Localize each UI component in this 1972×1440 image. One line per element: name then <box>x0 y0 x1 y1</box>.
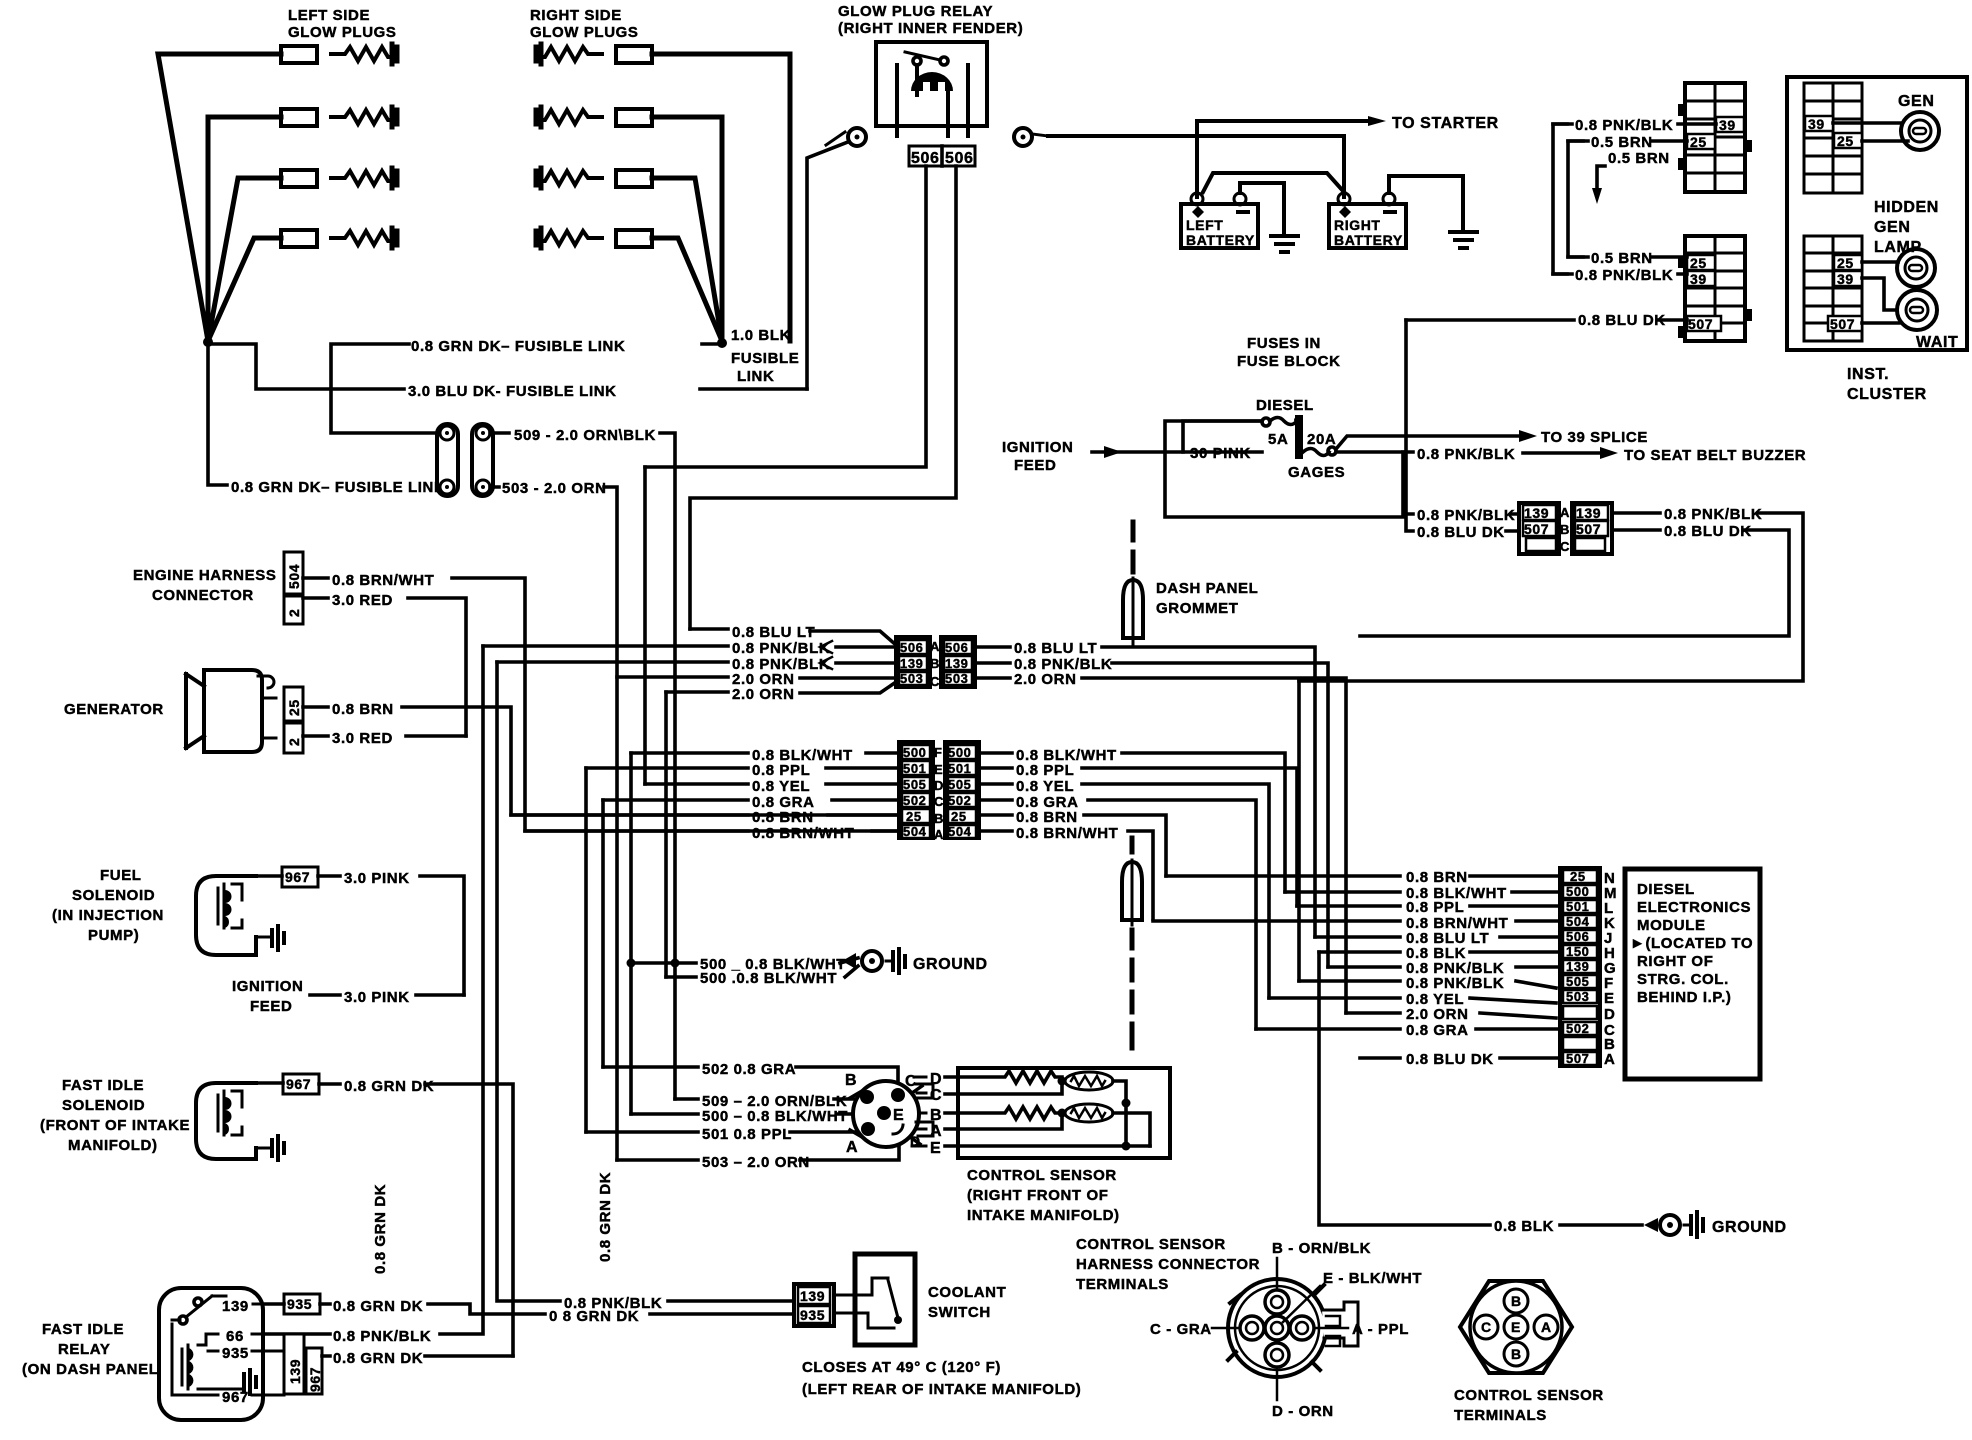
svg-text:BATTERY: BATTERY <box>1186 232 1255 248</box>
svg-text:935: 935 <box>800 1307 825 1323</box>
svg-text:0.8 PPL: 0.8 PPL <box>1406 899 1464 916</box>
svg-text:HIDDEN: HIDDEN <box>1874 199 1939 216</box>
svg-text:506: 506 <box>900 640 924 655</box>
wire battery jumper <box>1203 173 1344 192</box>
wire 0.8 yel right row <box>979 784 1269 998</box>
svg-text:MANIFOLD): MANIFOLD) <box>68 1137 158 1154</box>
svg-text:ENGINE HARNESS: ENGINE HARNESS <box>133 567 276 584</box>
wire 501 0.8 ppl control <box>586 1130 856 1134</box>
svg-text:3.0 RED: 3.0 RED <box>332 592 393 609</box>
svg-text:BEHIND I.P.): BEHIND I.P.) <box>1637 989 1731 1006</box>
svg-text:25: 25 <box>1570 869 1586 884</box>
connector key tabs <box>916 1084 933 1136</box>
wire ignition feed 3.0 pink <box>310 993 464 997</box>
svg-text:FEED: FEED <box>1014 457 1056 474</box>
harness connector key tabs <box>1322 1302 1358 1346</box>
svg-text:FUSE BLOCK: FUSE BLOCK <box>1237 353 1341 370</box>
wire vertical pnk/blk return to F <box>1297 681 1301 981</box>
wire relay right leg down <box>690 166 956 629</box>
ignition feed label <box>1002 439 1073 474</box>
fuse 20A gages <box>1303 447 1336 456</box>
svg-text:B: B <box>934 811 944 826</box>
wire 500 0.8 blk/wht control <box>631 1112 872 1116</box>
svg-text:FUEL: FUEL <box>100 867 142 884</box>
svg-text:CONNECTOR: CONNECTOR <box>152 587 254 604</box>
wire 0.8 yel left row <box>645 782 899 786</box>
svg-text:505: 505 <box>948 777 972 792</box>
wire C row <box>945 1081 1062 1094</box>
connector 139/967 rotated boxes <box>284 1334 322 1394</box>
svg-text:FUSES IN: FUSES IN <box>1247 335 1321 352</box>
svg-text:GEN: GEN <box>1874 219 1910 236</box>
wire 500 blk/wht ground row1 <box>631 958 858 963</box>
svg-text:FAST IDLE: FAST IDLE <box>42 1321 124 1338</box>
svg-text:(ON DASH PANEL): (ON DASH PANEL) <box>22 1361 164 1378</box>
svg-text:66: 66 <box>226 1328 244 1345</box>
glow plug R1 <box>536 44 652 64</box>
svg-text:139: 139 <box>1524 505 1549 521</box>
svg-text:0.8 BRN/WHT: 0.8 BRN/WHT <box>332 572 434 589</box>
ground left battery <box>1271 236 1298 252</box>
wire 0.8 brn/wht engine harness <box>303 578 899 831</box>
svg-text:TERMINALS: TERMINALS <box>1076 1276 1169 1293</box>
svg-text:25: 25 <box>1837 133 1854 149</box>
svg-text:C: C <box>1560 539 1570 554</box>
wire 503 2.0 orn control <box>617 1146 899 1160</box>
fuel solenoid coil <box>218 884 242 928</box>
svg-text:506: 506 <box>945 640 969 655</box>
label 25 / 39 / 507 lower grid <box>1687 255 1721 331</box>
fuel solenoid box <box>196 876 256 955</box>
svg-text:TO 39 SPLICE: TO 39 SPLICE <box>1541 429 1648 446</box>
svg-text:504: 504 <box>1566 914 1590 929</box>
svg-text:E: E <box>1604 990 1615 1007</box>
wire 500 blk/wht ground row2 <box>666 966 858 977</box>
module wire 0.8 brn N <box>1166 874 1563 878</box>
svg-text:A: A <box>930 639 940 654</box>
wire 0.5 brn upper <box>1568 139 1687 143</box>
svg-text:503: 503 <box>1566 989 1590 1004</box>
svg-text:0.8 PNK/BLK: 0.8 PNK/BLK <box>1417 446 1515 463</box>
svg-text:0.8 GRN DK: 0.8 GRN DK <box>344 1078 434 1095</box>
svg-text:WAIT: WAIT <box>1916 334 1958 351</box>
wire L2 <box>208 117 281 341</box>
svg-text:RELAY: RELAY <box>58 1341 110 1358</box>
connector grid top right upper <box>1678 83 1752 192</box>
svg-text:501 0.8 PPL: 501 0.8 PPL <box>702 1126 792 1143</box>
wire 509 2.0 orn/blk control <box>675 1097 856 1101</box>
wires to gen lamp <box>1833 123 1908 141</box>
svg-text:E - BLK/WHT: E - BLK/WHT <box>1323 1270 1422 1287</box>
pin letters around connector <box>845 1072 921 1156</box>
wire to 39 splice <box>1336 436 1519 449</box>
connector 139/507 A B C right half <box>1572 503 1612 554</box>
svg-text:5A: 5A <box>1268 431 1288 448</box>
svg-text:B - ORN/BLK: B - ORN/BLK <box>1272 1240 1371 1257</box>
right battery <box>1329 193 1406 248</box>
svg-text:0.8 BRN/WHT: 0.8 BRN/WHT <box>752 825 854 842</box>
svg-text:PUMP): PUMP) <box>88 927 139 944</box>
wire left battery ground <box>1240 183 1284 234</box>
wire 0.8 pnk/blk coolant <box>497 662 794 1301</box>
svg-text:A: A <box>1604 1051 1615 1068</box>
connector 500F-504A right half <box>945 742 979 838</box>
svg-text:139: 139 <box>900 656 924 671</box>
relay left ring terminal <box>826 128 866 146</box>
svg-text:CONTROL SENSOR: CONTROL SENSOR <box>1076 1236 1226 1253</box>
label B orn/blk <box>1276 1258 1279 1290</box>
svg-text:0.8 YEL: 0.8 YEL <box>1016 778 1074 795</box>
svg-text:E: E <box>1511 1319 1521 1335</box>
wire 0.8 grn dk coolant <box>483 1312 794 1316</box>
svg-text:25: 25 <box>951 809 967 824</box>
svg-text:501: 501 <box>903 761 927 776</box>
wire 0.8 blk/wht right row <box>979 753 1285 892</box>
wires to hidden gen lamp and wait lamp <box>1862 262 1899 323</box>
svg-text:507: 507 <box>1688 316 1713 332</box>
label inst cluster <box>1847 366 1927 403</box>
svg-text:139: 139 <box>800 1288 825 1304</box>
svg-text:0.8 BLK: 0.8 BLK <box>1494 1218 1554 1235</box>
ground mid symbol <box>842 949 905 973</box>
svg-text:(IN INJECTION: (IN INJECTION <box>52 907 164 924</box>
wire pnk/blk branch down to 139A <box>1403 452 1519 514</box>
svg-text:0.8 GRN DK: 0.8 GRN DK <box>597 1172 614 1262</box>
left battery <box>1181 193 1258 248</box>
svg-text:503 - 2.0 ORN: 503 - 2.0 ORN <box>502 480 607 497</box>
svg-text:E: E <box>893 1107 904 1124</box>
wire 0.8 brn right row <box>979 815 1166 876</box>
svg-text:2.0 ORN: 2.0 ORN <box>732 686 795 703</box>
wire relay left leg to bundle <box>645 166 926 467</box>
svg-text:507: 507 <box>1830 316 1855 332</box>
generator label <box>64 701 164 718</box>
svg-text:502: 502 <box>903 793 927 808</box>
wire L3 <box>208 178 281 341</box>
svg-text:507: 507 <box>1524 521 1549 537</box>
fast idle solenoid box <box>196 1083 256 1159</box>
svg-text:A: A <box>930 1123 942 1140</box>
wire 0.8 blu lt right row <box>975 647 1315 937</box>
svg-text:B: B <box>930 656 940 671</box>
svg-text:0.8 BRN: 0.8 BRN <box>332 701 394 718</box>
svg-text:0.8 PNK/BLK: 0.8 PNK/BLK <box>1406 975 1504 992</box>
wire left ring to 3.0 BLU DK fusible <box>807 142 848 389</box>
svg-text:0.8 PNK/BLK: 0.8 PNK/BLK <box>732 640 830 657</box>
module wire 0.8 blu lt J <box>1315 935 1563 939</box>
wire L4 <box>208 238 281 341</box>
label 25 / 39 / 507 inst lower <box>1828 255 1862 331</box>
svg-text:505: 505 <box>903 777 927 792</box>
svg-text:B: B <box>845 1072 857 1089</box>
fusible link capsule 1 <box>437 424 458 496</box>
svg-text:0.8 BLU DK: 0.8 BLU DK <box>1406 1051 1494 1068</box>
label 506 506 <box>909 146 975 166</box>
glow plug L2 <box>281 107 397 127</box>
hidden gen lamp <box>1897 249 1935 287</box>
harness pins <box>1240 1290 1314 1367</box>
fast idle relay pin rows <box>172 1296 284 1395</box>
svg-text:0.8 PNK/BLK: 0.8 PNK/BLK <box>1575 267 1673 284</box>
connector pins <box>860 1088 905 1136</box>
svg-text:0.8 GRN DK– FUSIBLE LINK: 0.8 GRN DK– FUSIBLE LINK <box>231 479 445 496</box>
wire 0.8 grn dk relay 935 row <box>322 1354 513 1358</box>
label hidden gen lamp <box>1874 199 1939 256</box>
svg-text:935: 935 <box>287 1296 312 1312</box>
label 39 / 25 upper grid <box>1687 117 1744 149</box>
wire 0.8 grn dk relay 139 row <box>263 1304 483 1314</box>
svg-text:150: 150 <box>1566 944 1590 959</box>
svg-text:507: 507 <box>1566 1051 1590 1066</box>
wire R4 <box>652 238 722 341</box>
svg-text:504: 504 <box>948 824 972 839</box>
svg-text:0.8 GRA: 0.8 GRA <box>1406 1022 1469 1039</box>
svg-text:500 – 0.8 BLK/WHT: 500 – 0.8 BLK/WHT <box>702 1108 848 1125</box>
svg-text:RIGHT: RIGHT <box>1334 217 1381 233</box>
wire 0.5 brn arrow <box>1597 166 1605 190</box>
connector 506 139 503 left half <box>896 637 930 687</box>
svg-text:LEFT: LEFT <box>1186 217 1223 233</box>
ground right battery <box>1450 232 1477 248</box>
svg-text:GENERATOR: GENERATOR <box>64 701 164 718</box>
wire vertical relay leg to yel <box>643 467 647 784</box>
wire 0.8 pnk/blk upper <box>1553 122 1716 126</box>
inst cluster box <box>1787 77 1967 350</box>
svg-text:0 8 GRN DK: 0 8 GRN DK <box>549 1308 639 1325</box>
svg-text:30 PINK: 30 PINK <box>1190 445 1251 462</box>
label closes at 49C <box>802 1359 1081 1398</box>
glow plug L3 <box>281 168 397 188</box>
svg-text:0.8 GRN DK– FUSIBLE LINK: 0.8 GRN DK– FUSIBLE LINK <box>411 338 625 355</box>
label 967 fast idle solenoid <box>283 1074 319 1094</box>
svg-text:TERMINALS: TERMINALS <box>1454 1407 1547 1424</box>
control sensor terminals label <box>1454 1387 1604 1424</box>
wire right battery ground <box>1389 176 1463 230</box>
svg-text:COOLANT: COOLANT <box>928 1284 1006 1301</box>
svg-text:504: 504 <box>286 564 302 589</box>
svg-text:500 .0.8 BLK/WHT: 500 .0.8 BLK/WHT <box>700 970 837 987</box>
svg-text:0.8 YEL: 0.8 YEL <box>752 778 810 795</box>
glow plug R4 <box>536 228 652 248</box>
svg-text:3.0 RED: 3.0 RED <box>332 730 393 747</box>
wire vertical orn row2 to ground2 <box>664 692 668 977</box>
wire ignition feed arrow <box>1092 450 1183 454</box>
svg-text:3.0 PINK: 3.0 PINK <box>344 870 410 887</box>
svg-text:25: 25 <box>286 699 302 716</box>
svg-text:503: 503 <box>900 671 924 686</box>
letters D C B A E column <box>930 1071 942 1157</box>
node junction 675/963 <box>671 959 680 968</box>
coolant switch box <box>855 1254 915 1345</box>
stubs to letter column <box>912 1077 926 1146</box>
svg-text:DASH PANEL: DASH PANEL <box>1156 580 1258 597</box>
svg-text:DIESEL: DIESEL <box>1256 397 1314 414</box>
wire 0.8 blk H to ground bottom <box>1319 952 1642 1225</box>
connector 25/2 generator <box>284 687 303 753</box>
svg-text:0.8 BRN: 0.8 BRN <box>752 809 814 826</box>
wire blu dk down to 507B <box>1406 320 1519 531</box>
wire junction down to lower GRN DK row <box>208 344 227 485</box>
module wire 0.8 blk/wht M <box>1285 890 1563 894</box>
svg-text:0.8 PNK/BLK: 0.8 PNK/BLK <box>333 1328 431 1345</box>
label 935 fast idle relay <box>284 1294 320 1314</box>
svg-text:D - ORN: D - ORN <box>1272 1403 1334 1420</box>
ground fuel solenoid <box>256 936 270 939</box>
module terminal column <box>1560 868 1600 1066</box>
svg-text:TO SEAT BELT BUZZER: TO SEAT BELT BUZZER <box>1624 447 1806 464</box>
svg-text:LEFT SIDE: LEFT SIDE <box>288 7 370 24</box>
label D orn <box>1276 1367 1279 1400</box>
svg-text:25: 25 <box>1690 134 1707 150</box>
svg-text:LINK: LINK <box>737 368 774 385</box>
harness connector circle <box>1228 1279 1326 1377</box>
wire 0.8 grn dk fast idle solenoid <box>256 1083 513 1356</box>
svg-text:0.8 BLU DK: 0.8 BLU DK <box>1578 312 1666 329</box>
svg-text:967: 967 <box>307 1367 323 1392</box>
svg-text:501: 501 <box>948 761 972 776</box>
svg-text:25: 25 <box>906 809 922 824</box>
svg-text:GROUND: GROUND <box>1712 1219 1787 1236</box>
wire 0.8 brn left row <box>511 813 899 817</box>
wire 0.8 pnk/blk relay 66 row <box>263 646 483 1334</box>
svg-text:503: 503 <box>945 671 969 686</box>
wire L1 <box>158 54 281 341</box>
wire 0.8 brn/wht right row <box>979 831 1153 919</box>
hex pins <box>1474 1289 1558 1366</box>
svg-text:(RIGHT INNER FENDER): (RIGHT INNER FENDER) <box>838 20 1023 37</box>
module wire 0.8 gra C <box>1256 1027 1563 1031</box>
ignition feed label <box>232 978 303 1015</box>
svg-text:0.8 PNK/BLK: 0.8 PNK/BLK <box>1664 506 1762 523</box>
svg-text:0.8 PPL: 0.8 PPL <box>1016 762 1074 779</box>
svg-text:0.8 BLU DK: 0.8 BLU DK <box>1664 523 1752 540</box>
wire D row resistor <box>945 1071 1062 1083</box>
wire 0.8 pnk/blk to seat belt buzzer <box>1336 452 1600 453</box>
svg-text:FUSIBLE: FUSIBLE <box>731 350 799 367</box>
wire 0.8 pnk/blk right row <box>975 663 1328 967</box>
svg-text:2: 2 <box>286 738 302 746</box>
module wire 0.8 pnk/blk F <box>1299 981 1556 988</box>
module letters N-A <box>1604 870 1617 1068</box>
wire relay ring to right battery <box>1048 136 1344 197</box>
relay switch fast idle <box>172 1296 212 1395</box>
svg-text:GROMMET: GROMMET <box>1156 600 1239 617</box>
wire vertical 502 gra <box>601 800 605 1067</box>
ground bottom right <box>1644 1212 1703 1237</box>
splice chevron row2 <box>820 657 832 669</box>
inst cluster grid lower <box>1804 236 1862 341</box>
module wire 0.8 yel E <box>1269 998 1556 1003</box>
wire 0.8 blk/wht left row <box>631 751 899 755</box>
svg-text:B: B <box>1560 522 1570 537</box>
svg-text:TO STARTER: TO STARTER <box>1392 115 1499 132</box>
gen lamp <box>1901 112 1939 150</box>
connector 139/507 A B C left half <box>1519 503 1559 554</box>
svg-text:IGNITION: IGNITION <box>232 978 303 995</box>
wire 3.0 red generator <box>303 734 466 738</box>
wire 502 0.8 gra control <box>603 1067 898 1088</box>
wire R1 <box>652 54 790 341</box>
connector 506 139 503 right half <box>941 637 975 687</box>
svg-text:C: C <box>930 1087 942 1104</box>
label 1.0 BLK fusible link <box>731 327 799 385</box>
svg-text:(FRONT OF INTAKE: (FRONT OF INTAKE <box>40 1117 190 1134</box>
svg-text:HARNESS CONNECTOR: HARNESS CONNECTOR <box>1076 1256 1260 1273</box>
label GEN <box>1898 93 1934 110</box>
svg-text:F: F <box>934 745 943 760</box>
svg-text:2.0 ORN: 2.0 ORN <box>1014 671 1077 688</box>
wire 509 2.0 ORN BLK <box>490 433 675 1099</box>
right side glow plugs title <box>530 7 639 41</box>
module wire 0.8 brn/wht K <box>1153 919 1563 923</box>
relay right ring terminal <box>1014 128 1048 146</box>
svg-text:RIGHT SIDE: RIGHT SIDE <box>530 7 622 24</box>
control sensor terminals hexagon <box>1460 1281 1572 1373</box>
label WAIT <box>1916 334 1958 351</box>
svg-text:E: E <box>934 762 943 777</box>
connector 504/2 engine harness <box>284 552 303 624</box>
fuse block box <box>1165 421 1405 517</box>
connector grid top right lower <box>1678 236 1752 341</box>
fast idle solenoid label <box>40 1077 190 1154</box>
svg-text:0.8 BLU DK: 0.8 BLU DK <box>1417 524 1505 541</box>
svg-text:0.5 BRN: 0.5 BRN <box>1608 150 1670 167</box>
inst cluster grid upper <box>1804 83 1862 193</box>
wire R2 <box>652 117 722 341</box>
wire 2.0 orn left row1 <box>617 677 896 678</box>
svg-text:B: B <box>1511 1293 1522 1309</box>
fuse bus bar <box>1295 415 1303 459</box>
svg-text:CLUSTER: CLUSTER <box>1847 386 1927 403</box>
svg-text:C - GRA: C - GRA <box>1150 1321 1212 1338</box>
wire 503 2.0 ORN <box>490 487 617 1160</box>
svg-text:STRG. COL.: STRG. COL. <box>1637 971 1729 988</box>
svg-text:0.8 BLU LT: 0.8 BLU LT <box>732 624 815 641</box>
module wire 0.8 pnk/blk G <box>1328 965 1563 969</box>
engine harness connector label <box>133 567 276 604</box>
connector 139/935 coolant <box>794 1284 834 1326</box>
svg-text:500: 500 <box>1566 884 1590 899</box>
fast idle relay label <box>22 1321 164 1378</box>
svg-text:3.0 PINK: 3.0 PINK <box>344 989 410 1006</box>
relay coil fast idle <box>182 1334 242 1389</box>
wire 0.8 brn/wht left row <box>525 829 899 833</box>
svg-text:39: 39 <box>1719 117 1736 133</box>
svg-text:0.5 BRN: 0.5 BRN <box>1591 134 1653 151</box>
svg-text:B: B <box>930 1107 942 1124</box>
svg-text:509 - 2.0 ORN\BLK: 509 - 2.0 ORN\BLK <box>514 427 656 444</box>
wire 0.8 ppl left row <box>586 766 899 770</box>
glow element D <box>1065 1072 1126 1103</box>
wire brn bracket <box>1568 141 1583 257</box>
svg-text:0.8 PPL: 0.8 PPL <box>752 762 810 779</box>
wire 0.8 blu dk lower <box>1406 318 1687 322</box>
svg-text:967: 967 <box>285 869 310 885</box>
wire 0.8 gra right row <box>979 800 1256 1029</box>
label E blk/wht <box>1283 1286 1320 1322</box>
svg-text:0.8 BRN/WHT: 0.8 BRN/WHT <box>1016 825 1118 842</box>
wire 0.8 pnk/blk left row2 <box>497 662 896 663</box>
svg-text:2.0 ORN: 2.0 ORN <box>1406 1006 1469 1023</box>
control sensor harness connector terminals label <box>1076 1236 1260 1293</box>
svg-text:502: 502 <box>1566 1021 1590 1036</box>
label 0.8 grn dk rotated left <box>372 1184 389 1274</box>
dash panel grommet lower <box>1122 838 1142 1048</box>
svg-text:SOLENOID: SOLENOID <box>72 887 155 904</box>
svg-text:SOLENOID: SOLENOID <box>62 1097 145 1114</box>
diesel electronics module box <box>1625 869 1760 1079</box>
wire 3.0 BLU DK fusible row <box>208 344 807 389</box>
